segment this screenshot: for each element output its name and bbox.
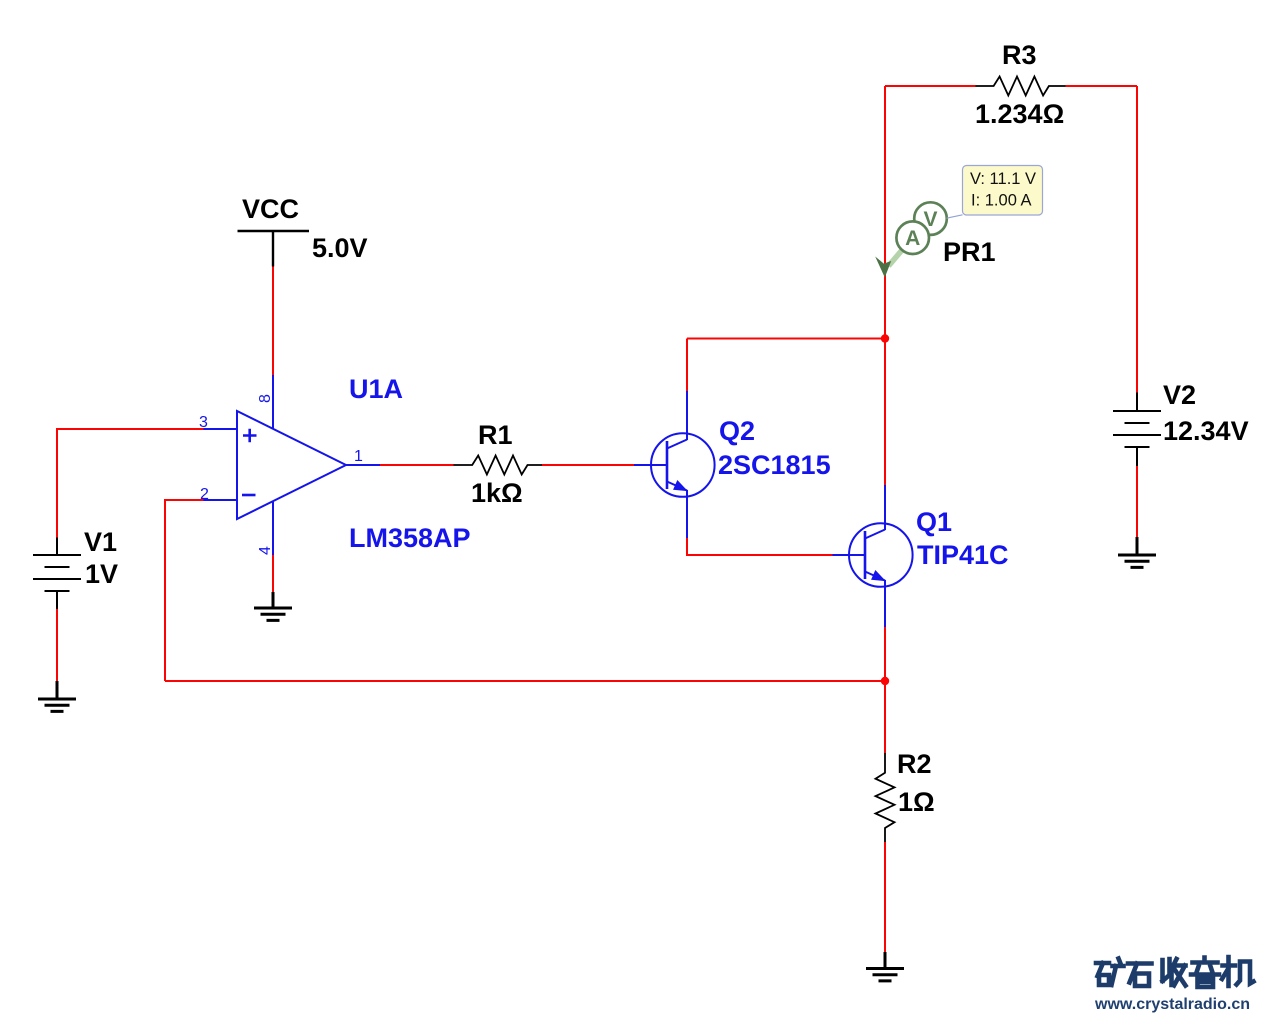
svg-text:1kΩ: 1kΩ bbox=[471, 478, 523, 508]
voltage source V1 bbox=[33, 538, 81, 610]
wire Q2 collector branch bbox=[687, 339, 885, 392]
ground (op-amp pin 4) bbox=[254, 592, 292, 620]
svg-text:8: 8 bbox=[257, 394, 274, 403]
ground (R2) bbox=[866, 952, 904, 981]
wire R3 to V2 top bbox=[1136, 86, 1138, 393]
ground (V2) bbox=[1118, 537, 1156, 567]
svg-text:A: A bbox=[905, 227, 920, 250]
svg-text:R2: R2 bbox=[897, 749, 932, 779]
wire node to R2 bbox=[884, 681, 886, 753]
svg-text:3: 3 bbox=[199, 414, 208, 431]
svg-text:12.34V: 12.34V bbox=[1163, 416, 1249, 446]
svg-text:R3: R3 bbox=[1002, 40, 1037, 70]
svg-text:1.234Ω: 1.234Ω bbox=[975, 99, 1064, 129]
transistor Q2 2SC1815 bbox=[634, 433, 715, 538]
wire feedback bottom horizontal bbox=[165, 680, 885, 682]
svg-text:TIP41C: TIP41C bbox=[917, 540, 1009, 570]
wire Q2 pin stubs (red-blue transition) bbox=[686, 391, 688, 440]
transistor Q1 TIP41C bbox=[833, 485, 913, 627]
svg-text:V: V bbox=[923, 208, 937, 231]
probe PR1 V circle bbox=[914, 202, 947, 235]
ground (V1) bbox=[38, 681, 76, 711]
svg-text:1Ω: 1Ω bbox=[898, 787, 935, 817]
svg-text:2: 2 bbox=[200, 486, 209, 503]
op-amp pin 3 stub bbox=[204, 428, 238, 430]
wire V2 bottom to ground bbox=[1136, 466, 1138, 537]
resistor R3 bbox=[976, 77, 1066, 96]
op-amp pin 4 stub bbox=[272, 502, 274, 556]
probe PR1 arrow shaft bbox=[889, 243, 909, 266]
wire V1 top to op-amp pin 3 bbox=[57, 429, 204, 538]
svg-text:PR1: PR1 bbox=[943, 237, 996, 267]
svg-text:V1: V1 bbox=[84, 527, 117, 557]
wire op-amp pin 4 to ground bbox=[272, 555, 274, 592]
wire Q1 emitter down bbox=[884, 627, 886, 681]
watermark logo 矿石收音机 bbox=[1096, 957, 1254, 987]
svg-text:Q1: Q1 bbox=[916, 507, 952, 537]
op-amp minus input mark bbox=[242, 494, 256, 497]
svg-text:2SC1815: 2SC1815 bbox=[718, 450, 831, 480]
wire V1 bottom to ground bbox=[56, 609, 58, 681]
wire top horizontal R3 net bbox=[885, 85, 1137, 87]
op-amp pin 2 stub bbox=[204, 499, 238, 501]
svg-text:1: 1 bbox=[354, 448, 363, 465]
wire op-amp output to R1 bbox=[380, 464, 454, 466]
svg-text:1V: 1V bbox=[85, 559, 118, 589]
svg-text:5.0V: 5.0V bbox=[312, 233, 368, 263]
svg-text:R1: R1 bbox=[478, 420, 513, 450]
op-amp pin 1 stub bbox=[346, 464, 380, 466]
wire Q2 emitter to Q1 base bbox=[687, 538, 833, 555]
svg-text:V2: V2 bbox=[1163, 380, 1196, 410]
op-amp pin 8 stub bbox=[272, 375, 274, 429]
probe PR1 arrowhead bbox=[875, 257, 891, 278]
svg-text:Q2: Q2 bbox=[719, 416, 755, 446]
resistor R2 bbox=[876, 753, 895, 842]
junction node A (Q2 collector tap) bbox=[881, 334, 889, 342]
resistor R1 bbox=[454, 456, 543, 475]
svg-text:www.crystalradio.cn: www.crystalradio.cn bbox=[1094, 996, 1250, 1013]
svg-text:I: 1.00 A: I: 1.00 A bbox=[971, 192, 1032, 210]
wire R2 to ground bbox=[884, 842, 886, 952]
junction node B (emitter feedback tap) bbox=[881, 677, 889, 685]
probe PR1 A circle bbox=[896, 221, 929, 254]
voltage source V2 bbox=[1113, 393, 1161, 467]
probe PR1 tooltip box bbox=[963, 166, 1043, 216]
svg-text:4: 4 bbox=[257, 546, 274, 555]
VCC symbol bbox=[238, 231, 310, 267]
probe PR1 tooltip connector bbox=[947, 215, 963, 218]
svg-text:VCC: VCC bbox=[242, 194, 299, 224]
op-amp plus input mark bbox=[243, 429, 257, 443]
op-amp U1A triangle bbox=[237, 411, 346, 519]
svg-text:V: 11.1 V: V: 11.1 V bbox=[970, 170, 1036, 188]
wire main vertical collector net bbox=[884, 86, 886, 485]
svg-text:LM358AP: LM358AP bbox=[349, 523, 471, 553]
wire VCC to op-amp pin 8 bbox=[272, 267, 274, 376]
svg-text:U1A: U1A bbox=[349, 374, 403, 404]
wire R1 to Q2 base bbox=[542, 464, 634, 466]
wire op-amp pin 2 feedback vertical bbox=[165, 500, 204, 681]
